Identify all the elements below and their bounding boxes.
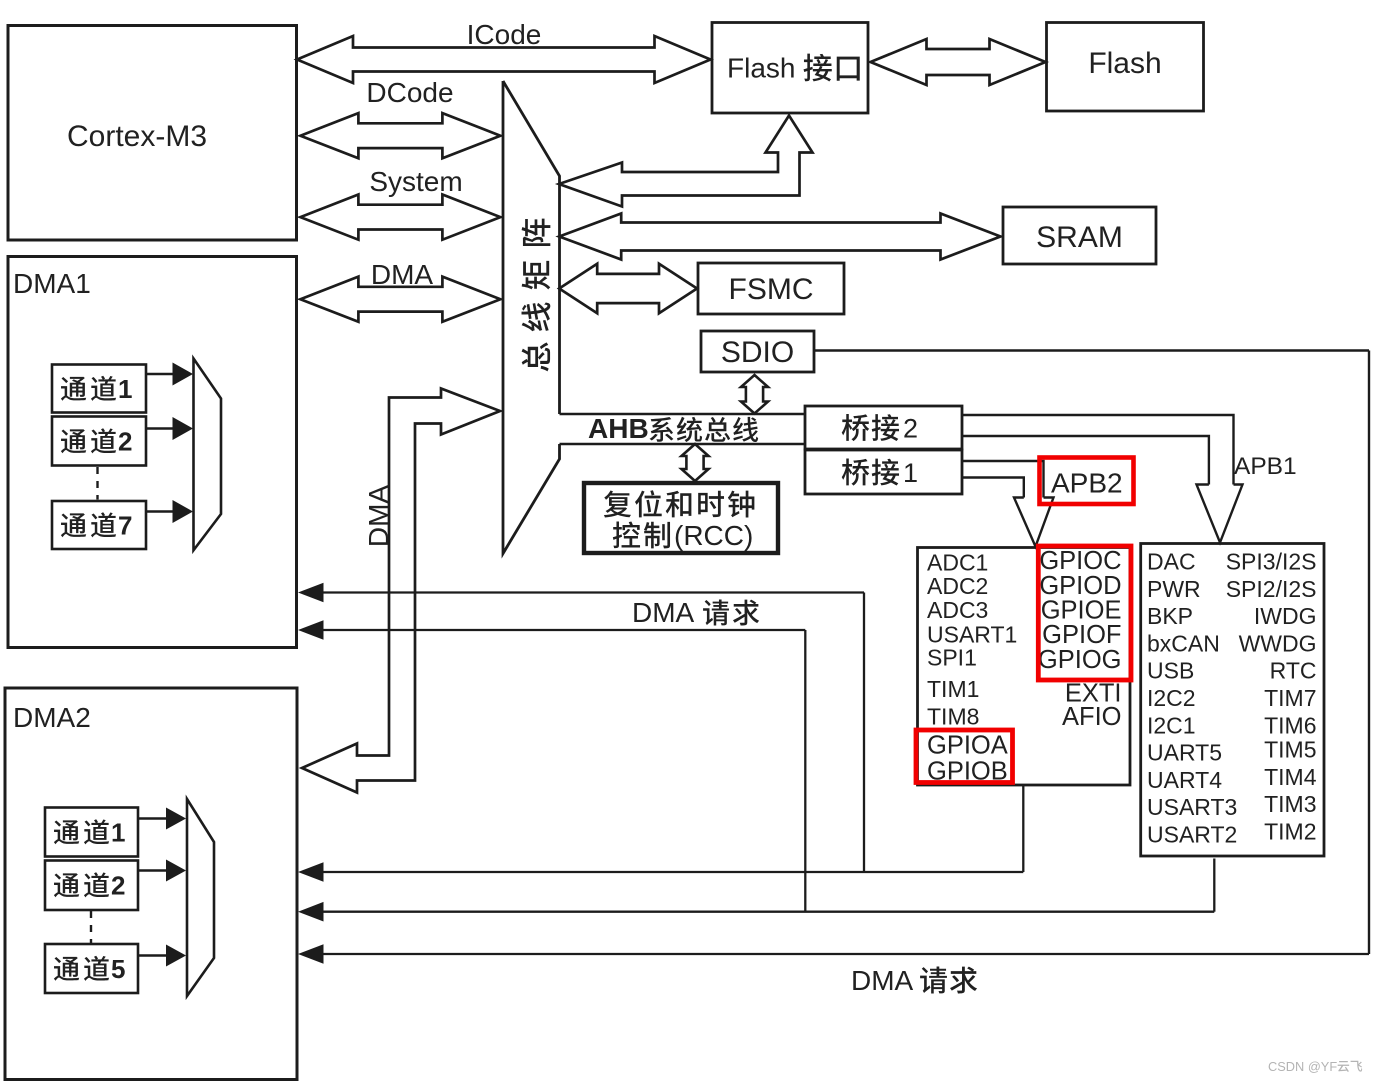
- svg-text:BKP: BKP: [1147, 603, 1193, 629]
- svg-text:SDIO: SDIO: [721, 336, 794, 369]
- thick DMA pipe arrow to DMA2: [302, 389, 500, 793]
- box DMA1 channel 通道1: [52, 365, 146, 413]
- wire DMA2 通道1 to mux: [138, 817, 166, 820]
- svg-text:2: 2: [111, 871, 125, 901]
- svg-text:7: 7: [118, 511, 132, 541]
- svg-text:GPIOG: GPIOG: [1038, 646, 1122, 674]
- svg-text:1: 1: [903, 458, 918, 488]
- svg-text:APB1: APB1: [1234, 453, 1297, 480]
- svg-text:TIM5: TIM5: [1264, 737, 1316, 763]
- svg-text:TIM4: TIM4: [1264, 764, 1317, 790]
- arrow DCode: [300, 113, 500, 158]
- svg-text:FSMC: FSMC: [729, 273, 814, 306]
- wire AHB bus bottom: [560, 443, 806, 446]
- svg-text:SPI1: SPI1: [927, 645, 977, 671]
- box DMA2 channel 通道2: [45, 861, 138, 911]
- bus matrix 总线矩阵 polygon: [503, 81, 560, 414]
- svg-text:Flash: Flash: [727, 53, 795, 84]
- svg-text:ICode: ICode: [467, 19, 542, 50]
- wire DMA2 通道5 to mux: [138, 954, 166, 957]
- svg-text:System: System: [369, 166, 462, 197]
- block 桥接2: [805, 406, 962, 449]
- block SDIO: [701, 331, 814, 372]
- svg-text:TIM2: TIM2: [1264, 819, 1316, 845]
- arrow APB1 head: [1197, 485, 1243, 543]
- svg-text:GPIOA: GPIOA: [927, 732, 1008, 760]
- block Cortex-M3: [8, 26, 297, 241]
- wire DMA request B to DMA1: [321, 629, 805, 631]
- wire vertical C from APB2 box: [1022, 785, 1024, 872]
- svg-text:(RCC): (RCC): [674, 520, 753, 551]
- svg-text:RTC: RTC: [1270, 658, 1317, 684]
- wire vertical A: [863, 593, 865, 873]
- svg-text:PWR: PWR: [1147, 576, 1201, 602]
- svg-text:APB2: APB2: [1051, 468, 1123, 499]
- dashed line DMA1 channels: [96, 467, 98, 500]
- label 通道1: [61, 377, 86, 401]
- label 桥接1: [842, 459, 870, 486]
- svg-text:DCode: DCode: [366, 77, 453, 108]
- svg-text:bxCAN: bxCAN: [1147, 630, 1220, 656]
- wire vertical D from APB1 box: [1213, 859, 1215, 912]
- wire 桥接1 to APB2 arrow: [962, 461, 1044, 498]
- svg-text:1: 1: [118, 374, 132, 404]
- svg-text:Flash: Flash: [1088, 47, 1161, 80]
- svg-text:2: 2: [903, 414, 918, 444]
- svg-text:UART4: UART4: [1147, 767, 1222, 793]
- svg-text:CSDN @YF: CSDN @YF: [1268, 1059, 1337, 1074]
- svg-text:AHB: AHB: [588, 413, 649, 444]
- wire right edge vertical: [1368, 351, 1370, 955]
- box DMA1 channel 通道2: [52, 417, 146, 466]
- arrow ICode: [297, 36, 711, 83]
- DMA1 mux trapezoid: [194, 359, 222, 551]
- svg-text:5: 5: [111, 954, 125, 984]
- wire 桥接2 to APB1 arrow: [962, 415, 1234, 485]
- svg-text:DMA: DMA: [363, 485, 394, 548]
- arrow APB2 head: [1014, 498, 1054, 547]
- svg-text:ADC2: ADC2: [927, 573, 988, 599]
- label 通道2: [61, 429, 86, 453]
- label 通道5: [54, 957, 79, 981]
- block 复位和时钟控制(RCC): [584, 483, 778, 553]
- svg-text:Cortex-M3: Cortex-M3: [67, 120, 207, 153]
- wire 通道7 to mux: [146, 510, 174, 513]
- svg-text:I2C1: I2C1: [1147, 712, 1196, 738]
- label 总线矩阵 vertical: [522, 343, 550, 372]
- svg-text:TIM8: TIM8: [927, 704, 979, 730]
- red highlight box APB2: [1040, 458, 1134, 505]
- arrow DMA cortex: [300, 277, 500, 322]
- block DMA2: [5, 688, 297, 1080]
- svg-text:USART2: USART2: [1147, 822, 1237, 848]
- box DMA2 channel 通道5: [45, 944, 138, 993]
- svg-text:DMA1: DMA1: [13, 268, 91, 299]
- svg-text:AFIO: AFIO: [1062, 703, 1122, 731]
- svg-text:1: 1: [111, 818, 125, 848]
- svg-text:DMA: DMA: [371, 259, 434, 290]
- block SRAM: [1003, 207, 1156, 264]
- svg-text:IWDG: IWDG: [1254, 603, 1317, 629]
- svg-text:ADC1: ADC1: [927, 550, 988, 576]
- svg-text:DAC: DAC: [1147, 549, 1196, 575]
- wire DMA request E to DMA2: [321, 953, 1369, 955]
- svg-text:SRAM: SRAM: [1036, 221, 1123, 254]
- wire 通道1 to mux: [146, 373, 174, 376]
- arrow bus matrix to FSMC: [559, 264, 697, 313]
- svg-text:USART3: USART3: [1147, 794, 1237, 820]
- svg-text:ADC3: ADC3: [927, 597, 988, 623]
- block APB2 peripherals: [918, 548, 1131, 786]
- label 复位和时钟: [604, 491, 631, 518]
- block DMA1: [8, 257, 297, 648]
- svg-text:DMA2: DMA2: [13, 702, 91, 733]
- red highlight box GPIOC-GPIOG: [1038, 546, 1131, 680]
- svg-text:DMA: DMA: [851, 965, 914, 996]
- label 通道1: [54, 820, 79, 844]
- label 桥接2: [842, 414, 870, 441]
- red highlight box GPIOA-GPIOB: [916, 730, 1013, 783]
- wire DMA2 通道2 to mux: [138, 869, 166, 872]
- block Flash 接口: [712, 23, 868, 114]
- arrow Flash interface to Flash: [871, 39, 1046, 85]
- block APB1 peripherals: [1141, 544, 1324, 857]
- wire DMA request C to DMA2: [321, 871, 1023, 873]
- svg-text:UART5: UART5: [1147, 740, 1222, 766]
- label 通道7: [61, 513, 86, 537]
- box DMA2 channel 通道1: [45, 808, 138, 857]
- wire DMA request D to DMA2: [321, 911, 1214, 913]
- box DMA1 channel 通道7: [52, 501, 146, 549]
- arrow System: [300, 195, 500, 240]
- svg-text:I2C2: I2C2: [1147, 685, 1196, 711]
- wire AHB bus top: [560, 413, 806, 416]
- svg-text:2: 2: [118, 427, 132, 457]
- svg-text:GPIOC: GPIOC: [1039, 547, 1121, 575]
- arrow AHB to RCC: [682, 444, 709, 481]
- label 控制(RCC): [613, 521, 640, 548]
- svg-text:TIM3: TIM3: [1264, 791, 1316, 817]
- elbow arrow bus matrix to Flash 接口: [559, 116, 813, 207]
- arrow SDIO to AHB: [741, 375, 768, 414]
- wire SDIO to right edge: [814, 349, 1369, 351]
- block Flash: [1047, 23, 1204, 112]
- svg-text:SPI3/I2S: SPI3/I2S: [1226, 549, 1317, 575]
- svg-text:DMA: DMA: [632, 597, 695, 628]
- wire vertical B: [804, 630, 806, 912]
- svg-text:WWDG: WWDG: [1239, 630, 1317, 656]
- block 桥接1: [805, 450, 962, 494]
- block FSMC: [698, 263, 844, 314]
- DMA2 mux trapezoid: [187, 799, 214, 996]
- arrow bus matrix to SRAM: [559, 214, 1000, 260]
- svg-text:TIM1: TIM1: [927, 676, 979, 702]
- svg-text:USB: USB: [1147, 658, 1194, 684]
- svg-text:TIM7: TIM7: [1264, 685, 1316, 711]
- dashed line DMA2 channels: [90, 911, 92, 943]
- label 通道2: [54, 873, 79, 897]
- svg-text:TIM6: TIM6: [1264, 712, 1316, 738]
- wire DMA request A to DMA1: [321, 591, 864, 593]
- svg-text:GPIOF: GPIOF: [1042, 621, 1121, 649]
- svg-text:SPI2/I2S: SPI2/I2S: [1226, 576, 1317, 602]
- wire 通道2 to mux: [146, 427, 174, 430]
